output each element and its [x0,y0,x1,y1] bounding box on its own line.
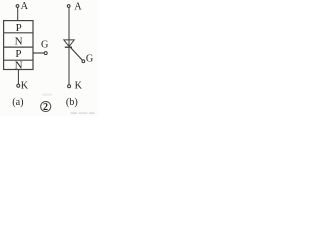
svg-text:K: K [21,80,29,91]
wire anode lead (b) [68,7,70,46]
svg-text:2: 2 [43,102,48,113]
svg-text:(b): (b) [66,97,78,108]
svg-text:A: A [74,1,82,12]
svg-text:G: G [41,39,49,50]
junction line J1 [4,32,33,34]
svg-text:G: G [86,54,94,65]
junction line J3 [4,59,33,61]
svg-text:A: A [21,1,29,12]
cathode bar [65,46,72,48]
wire cathode lead (b) [68,48,70,85]
terminal G (a) [44,52,47,55]
thyristor triangle [64,40,74,47]
junction line J2 [4,46,33,48]
wire cathode lead (a) [17,70,19,85]
terminal A of structure (a) [16,5,19,8]
terminal A of symbol (b) [67,5,70,8]
circled figure number 2 [41,101,51,111]
svg-text:P: P [15,48,21,60]
terminal K (a) [17,84,20,87]
terminal K (b) [68,85,71,88]
svg-text:N: N [15,35,23,47]
svg-text:P: P [16,22,22,34]
wire gate lead (b) [70,47,82,60]
wire anode lead (a) [17,7,19,20]
wire gate lead (a) [33,52,44,54]
faint print artifact bottom right [71,113,78,114]
svg-text:K: K [75,81,83,92]
layer stack outline [4,21,33,70]
svg-text:(a): (a) [12,97,23,108]
terminal G (b) [82,60,85,63]
faint print smudge below figure number [42,94,52,96]
